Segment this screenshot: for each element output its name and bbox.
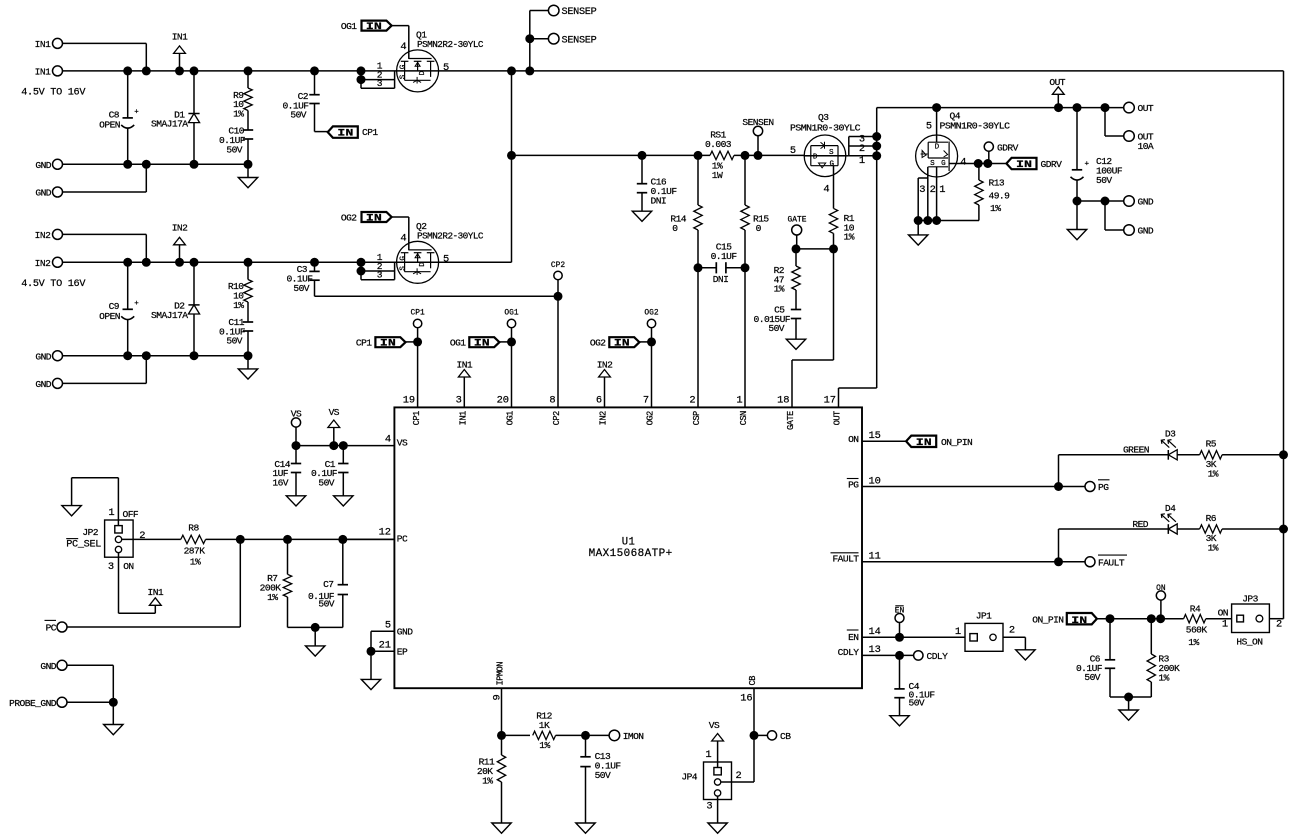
wire pin10 PG [862,482,1085,491]
svg-text:PSMN2R2-30YLC: PSMN2R2-30YLC [417,39,484,50]
wire OG2 to pin7 [651,342,653,408]
op-amp U1 MAX15068ATP+ body [394,407,862,688]
connector CDLY [914,651,949,662]
capacitor C16 [637,155,678,211]
svg-text:13: 13 [869,644,881,656]
svg-text:1%: 1% [844,232,855,243]
U1 pin 15 ON [848,430,881,445]
svg-text:1%: 1% [774,284,785,295]
wire JP3 pin2 [1269,618,1283,620]
svg-text:VS: VS [709,720,720,731]
svg-text:GND: GND [1138,226,1154,237]
svg-text:50V: 50V [909,698,925,709]
svg-text:2: 2 [736,770,742,782]
svg-text:IN: IN [916,437,932,449]
wire ON_PIN node [1097,614,1183,623]
wire pin15 ON [862,440,906,442]
resistor R1 [829,208,854,249]
svg-text:560K: 560K [1186,625,1208,636]
diode D1 [151,71,200,164]
jumper JP4 [681,762,741,812]
svg-text:GND: GND [1138,197,1154,208]
wire GND probe [67,665,118,707]
svg-text:3: 3 [919,184,925,196]
resistor R13 [975,164,1010,221]
wire CP2 to pin8 [557,296,559,407]
svg-text:IN1: IN1 [172,31,188,42]
svg-text:50V: 50V [318,599,334,610]
svg-text:DNI: DNI [651,195,667,206]
U1 pin 8 CP2 [549,395,562,426]
connector J-GND ch2 top [35,351,62,363]
connector J-IN2 bottom [35,257,63,269]
capacitor C8 [99,71,139,164]
svg-text:1%: 1% [482,775,493,786]
resistor R7 [260,539,292,627]
U1 pin 9 IPMON [492,662,506,701]
svg-text:1%: 1% [190,557,201,568]
connector VS [291,408,302,445]
LED D3 [1161,429,1177,460]
ground R7/C7 [306,627,325,656]
svg-text:3: 3 [456,395,462,407]
svg-text:1%: 1% [233,109,244,120]
svg-text:CP1: CP1 [412,411,422,425]
svg-text:ON: ON [1218,608,1228,619]
connector CB [767,731,791,742]
svg-text:PC: PC [397,534,408,545]
svg-text:50V: 50V [290,110,306,121]
U1 pin 18 GATE [777,395,796,431]
svg-text:GDRV: GDRV [997,142,1019,153]
svg-text:5: 5 [385,619,391,631]
connector SENSEP bottom [548,33,596,46]
capacitor C11 [219,317,253,356]
svg-text:1: 1 [955,626,961,638]
svg-text:1%: 1% [1158,673,1169,684]
svg-text:4.5V TO 16V: 4.5V TO 16V [21,87,86,98]
connector J-GND out bottom [1124,225,1154,237]
svg-text:FAULT: FAULT [1098,558,1125,569]
resistor R11 [477,755,506,823]
svg-text:CP1: CP1 [410,309,424,318]
wire GND ch2 jumper [63,356,147,384]
wire Q3 pin4 to R1 [823,166,833,209]
svg-text:CDLY: CDLY [838,647,860,658]
svg-text:IN1: IN1 [35,66,51,77]
jumper JP2 PC_SEL [66,520,145,573]
wire PROBE_GND [67,701,113,703]
connector CP2 [551,261,565,301]
svg-text:IN: IN [614,338,630,350]
wire pin11 FAULT [862,557,1085,566]
svg-text:PROBE_GND: PROBE_GND [9,698,57,709]
ground EP [361,651,380,689]
svg-text:8: 8 [549,395,555,407]
svg-text:OPEN: OPEN [99,120,120,131]
capacitor C15 [694,242,750,286]
wire IN1 rail [63,70,397,72]
svg-text:IN1: IN1 [456,359,472,370]
connector J-GND ch2 bottom [35,378,62,390]
svg-text:IPMON: IPMON [496,662,506,686]
svg-text:C7: C7 [323,579,333,590]
svg-text:GND: GND [35,379,51,390]
svg-text:15: 15 [869,430,881,442]
net flag IN / GDRV (left) [1006,158,1062,171]
connector OG1 mid [504,309,518,342]
ground C1 [334,496,353,506]
wire GATE node [792,244,839,253]
connector J-IN1 top [35,38,63,50]
jumper JP3 HS_ON [1232,593,1283,647]
resistor R9 [233,71,252,130]
U1 pin 6 IN2 [596,395,609,426]
svg-text:GND: GND [35,188,51,199]
svg-text:5: 5 [443,253,449,265]
svg-text:RED: RED [1132,519,1148,530]
capacitor C9 [99,262,139,355]
resistor R8 [181,522,395,567]
connector PG [1085,480,1110,493]
label 4.5V TO 16V [21,87,86,98]
wire SENSEP stubs [525,11,548,71]
connector ON [1156,584,1166,619]
svg-text:0: 0 [756,223,762,234]
transistor Q3 PSMN1R0-30YLC [790,112,861,177]
svg-text:GND: GND [35,351,51,362]
svg-text:SMAJ17A: SMAJ17A [151,119,188,130]
power flag VS [328,407,340,445]
svg-text:CB: CB [780,731,791,742]
node junctions on IN2 rail [123,258,319,267]
U1 pin 16 CB [740,676,758,705]
svg-text:D3: D3 [1165,429,1176,440]
label 4.5V TO 16V ch2 [21,279,86,290]
svg-text:VS: VS [397,438,408,449]
ground probe [104,702,123,734]
wire GND ch1 jumper [63,164,147,192]
svg-text:OG2: OG2 [644,309,658,318]
svg-text:EN: EN [848,632,858,643]
svg-text:IN2: IN2 [599,411,609,425]
transistor Q2 PSMN2R2-30YLC [397,221,484,283]
U1 pin 4 VS [385,434,408,449]
U1 pin 7 OG2 [643,395,656,426]
resistor R14 [670,155,702,267]
wire OUT top rail [877,103,1124,112]
svg-text:4: 4 [400,232,406,244]
svg-text:7: 7 [643,395,649,407]
ground C4 [890,716,909,726]
ground JP2 [62,478,119,516]
svg-text:14: 14 [869,626,881,638]
svg-text:SENSEP: SENSEP [562,35,597,46]
svg-text:50V: 50V [226,336,242,347]
LED D4 [1161,503,1177,534]
wire pin16 CB [750,688,768,782]
resistor R15 [741,155,770,267]
svg-text:EN: EN [895,606,905,615]
resistor R10 [228,262,252,322]
wire C3 to CP2 [315,295,559,297]
wire pin5 GND + pin21 EP [367,631,395,656]
svg-text:1: 1 [108,507,114,519]
wire JP1 pin2 + ground [1003,637,1035,660]
svg-text:CP1: CP1 [362,127,378,138]
wire OUT riser [876,108,878,388]
svg-text:5: 5 [790,145,796,157]
svg-text:IN1: IN1 [147,587,163,598]
svg-text:OG2: OG2 [646,411,656,425]
svg-text:4: 4 [400,41,406,53]
svg-text:OUT: OUT [1138,103,1154,114]
svg-text:1: 1 [705,749,711,761]
connector GND probe area [40,660,67,672]
svg-text:IMON: IMON [623,731,644,742]
U1 pin 13 CDLY [838,644,881,658]
wire GND ch2 rail [63,351,253,360]
wire C6 R3 gnd rail [1110,693,1151,702]
svg-text:GREEN: GREEN [1123,445,1149,456]
svg-text:10A: 10A [1138,141,1154,152]
transistor Q4 PSMN1R0-30YLC [916,108,1011,177]
connector SENSEN [742,117,773,155]
svg-text:IN2: IN2 [35,230,51,241]
svg-text:CP1: CP1 [356,337,372,348]
svg-text:OG2: OG2 [590,337,606,348]
net flag IN / OG2 (top) [341,212,409,250]
resistor R5 [1177,439,1288,480]
svg-text:OG1: OG1 [506,411,516,425]
ground C12 [1067,201,1086,240]
svg-text:2: 2 [1276,619,1282,631]
power flag IN1 at JP2 [147,587,163,605]
LED D3 GREEN branch wire [1059,455,1169,487]
svg-text:50V: 50V [595,770,611,781]
connector J-OUT [1124,102,1154,114]
wire sense node rail [512,151,711,160]
svg-text:OUT: OUT [1049,77,1065,88]
svg-text:HS_ON: HS_ON [1236,636,1262,647]
U1 pin 19 CP1 [403,395,422,426]
svg-text:GDRV: GDRV [1041,159,1063,170]
U1 pin 2 CSP [689,395,702,426]
svg-text:GATE: GATE [788,216,807,225]
wire pin9 IPMON [497,688,506,755]
svg-text:3: 3 [706,800,712,812]
capacitor C6 [1076,619,1115,697]
capacitor C4 [894,655,935,715]
capacitor C5 [754,304,802,339]
ground R11 [492,823,511,833]
svg-text:GND: GND [397,627,413,638]
connector CP1 mid [410,309,424,342]
connector OG2 mid [644,309,658,342]
svg-text:3: 3 [108,561,114,573]
wire GND ch1 rail [63,160,253,169]
svg-text:49.9: 49.9 [989,190,1011,201]
wire pin12 PC [343,538,395,540]
ground Q4 [909,221,928,246]
svg-text:0.1UF: 0.1UF [711,251,738,262]
svg-text:VS: VS [291,408,302,419]
node PC junctions [236,535,347,544]
svg-text:IN: IN [1016,159,1032,171]
svg-text:CB: CB [748,676,758,686]
svg-text:OG2: OG2 [341,212,357,223]
wire JP4 pin3 + ground [708,796,727,833]
node junctions on IN1 rail [123,66,319,75]
svg-text:GND: GND [40,661,56,672]
wire JP2 pin1 stub [108,478,139,526]
wire pin14 EN [862,633,965,642]
svg-text:R5: R5 [1206,439,1217,450]
Q3 pins 3-2-1 bracket [849,132,881,167]
svg-text:CDLY: CDLY [927,651,949,662]
Q1 pins 1-2-3 bracket [357,61,395,89]
LED D4 RED branch wire [1059,529,1169,562]
ground C16 [632,211,651,221]
svg-text:JP1: JP1 [976,611,992,622]
connector PC [45,620,68,633]
U1 pin 20 OG1 [497,395,516,426]
svg-text:JP2: JP2 [82,527,98,538]
svg-text:CP2: CP2 [551,261,565,270]
resistor R4 [1184,603,1232,648]
U1 pin 1 CSN [736,395,749,426]
svg-text:1%: 1% [539,740,550,751]
svg-text:IN: IN [380,338,396,350]
svg-text:IN: IN [366,21,382,33]
svg-text:3: 3 [377,270,383,281]
svg-text:1%: 1% [1188,637,1199,648]
net flag IN / CP1 (mid) [356,337,422,349]
resistor R2 [774,249,801,310]
svg-text:OPEN: OPEN [99,311,120,322]
svg-text:4: 4 [385,434,391,446]
svg-text:CSP: CSP [692,411,702,425]
resistor RS1 [705,130,804,181]
svg-text:PSMN1R0-30YLC: PSMN1R0-30YLC [790,123,861,134]
svg-text:GND: GND [35,160,51,171]
U1 pin 12 PC [379,527,408,545]
svg-text:1%: 1% [1208,543,1219,554]
svg-text:ON_PIN: ON_PIN [941,437,972,448]
svg-text:ON_PIN: ON_PIN [1032,614,1063,625]
wire IN1 top jumper [63,43,147,71]
U1 pin 5 GND [385,619,413,637]
svg-text:2: 2 [689,395,695,407]
svg-text:16: 16 [740,693,752,705]
svg-text:2: 2 [1009,625,1015,637]
capacitor C1 [311,446,349,496]
connector EN [895,606,905,638]
wire GATE to pin18 [792,249,834,408]
wire Q2 out [439,155,512,262]
svg-text:19: 19 [403,395,415,407]
svg-text:ON: ON [1156,584,1166,593]
U1 pin 17 OUT [824,395,843,426]
svg-text:50V: 50V [1084,672,1100,683]
svg-text:2: 2 [930,184,936,196]
wire VS rail to pin4 [292,441,395,450]
svg-text:6: 6 [596,395,602,407]
ground C14 [286,496,305,506]
connector IMON [609,730,643,742]
capacitor C3 [286,262,319,296]
svg-text:50V: 50V [318,478,334,489]
capacitor C2 [282,71,327,132]
power flag IN2 [172,223,188,263]
wire IN2 rail [63,261,397,263]
svg-text:Q3: Q3 [818,112,829,123]
svg-text:PG: PG [848,479,859,490]
svg-text:20: 20 [497,395,509,407]
svg-text:IN2: IN2 [172,223,188,234]
net flag IN / CP1 (left) [328,126,379,139]
label GREEN [1123,445,1149,456]
U1 pin 14 EN [847,626,881,643]
power flag IN1 mid [456,359,472,407]
svg-text:1K: 1K [539,720,550,731]
wire CSP pin stub [697,268,699,408]
svg-text:3: 3 [377,78,383,89]
svg-text:1: 1 [736,395,742,407]
svg-text:5: 5 [926,121,932,133]
wire CSN pin stub [744,268,746,408]
resistor R12 [502,711,610,751]
svg-text:4: 4 [960,156,966,168]
svg-text:IN1: IN1 [459,411,469,425]
capacitor C12 [1071,108,1123,201]
wire OG1 to pin20 [511,342,513,408]
svg-text:VS: VS [329,407,340,418]
wire IN2 top jumper [63,234,147,262]
ground C6/R3 [1119,697,1138,720]
connector GATE [788,216,807,249]
wire JP4 pin2 [721,781,754,783]
svg-text:OFF: OFF [123,509,139,520]
svg-text:50V: 50V [768,323,784,334]
svg-text:4.5V TO 16V: 4.5V TO 16V [21,279,86,290]
capacitor C10 [219,126,253,165]
connector PROBE_GND [9,697,67,709]
svg-text:1%: 1% [267,592,278,603]
wire OUT connectors [1105,108,1124,136]
wire CP1 to pin19 [417,342,419,408]
wire PC to node [67,539,240,627]
svg-text:IN1: IN1 [35,39,51,50]
Q4 pins 3-2-1 [914,167,946,225]
svg-text:0.003: 0.003 [705,139,732,150]
svg-text:OG1: OG1 [504,309,518,318]
svg-text:1%: 1% [990,203,1001,214]
net flag IN / OG1 (top) [341,21,409,59]
ground ch1 [238,164,257,187]
wire JP2 pin3 to IN1 flag [119,553,156,614]
wire right feedback drop [1283,71,1285,619]
connector FAULT [1085,555,1127,568]
svg-text:R6: R6 [1206,513,1217,524]
label ON at JP3 [1218,608,1228,631]
svg-text:OUT: OUT [833,411,843,425]
svg-text:R8: R8 [188,522,199,533]
svg-text:CSN: CSN [739,411,749,425]
svg-text:1%: 1% [1208,468,1219,479]
Q2 pins 1-2-3 bracket [357,252,395,280]
svg-text:2: 2 [139,530,145,542]
